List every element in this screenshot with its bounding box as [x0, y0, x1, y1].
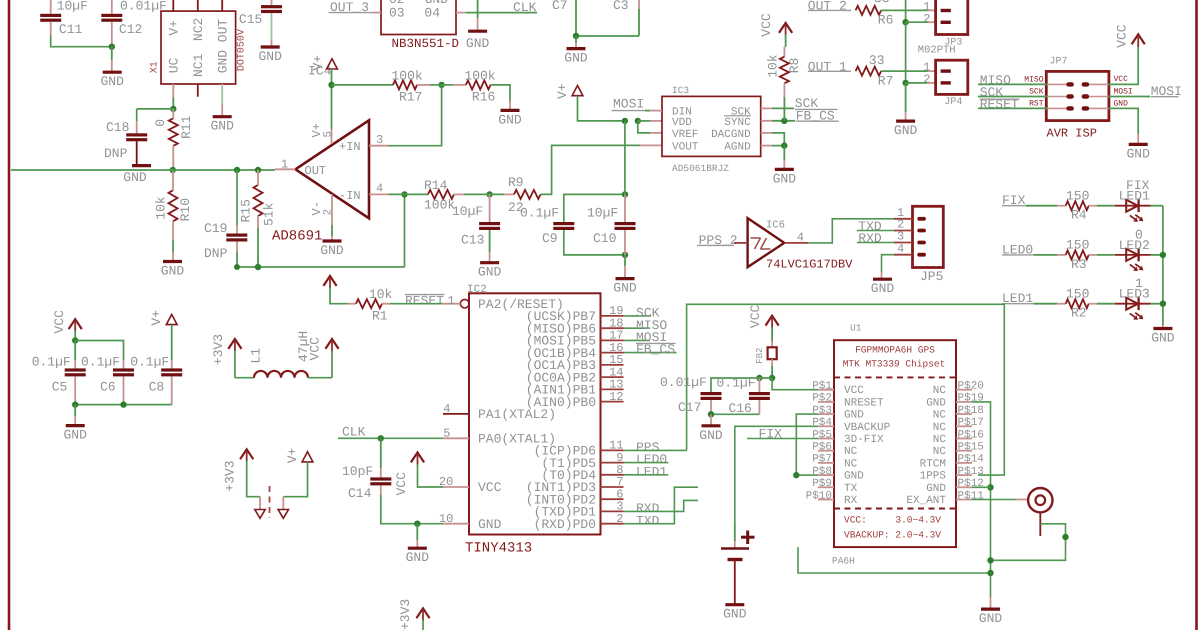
underline OUT_2 — [808, 9, 851, 11]
junction R15 top — [255, 167, 261, 173]
svg-text:4: 4 — [443, 402, 450, 416]
wire R4 to LED1 — [1089, 205, 1097, 207]
wire C5 top — [74, 341, 76, 361]
wire C19 bottom — [236, 242, 238, 253]
svg-text:100k: 100k — [424, 198, 455, 213]
inductor L1 — [254, 371, 308, 378]
capacitor C14 — [370, 477, 391, 480]
underline SCK at IC3 — [795, 108, 838, 110]
ground under battery — [725, 603, 744, 606]
JP7 pad right row2 — [1082, 94, 1090, 98]
junction C19 top — [234, 167, 240, 173]
ground under LEDs — [1153, 327, 1172, 330]
svg-text:2: 2 — [323, 209, 335, 216]
wire C16 bottom — [758, 400, 760, 414]
connector JP7 body — [1046, 71, 1109, 120]
svg-text:10µF: 10µF — [452, 204, 483, 219]
svg-text:0.01µF: 0.01µF — [660, 375, 707, 390]
junction C7 gnd — [573, 33, 579, 39]
svg-text:P$14: P$14 — [958, 454, 985, 466]
svg-text:U1: U1 — [850, 323, 862, 334]
junction C11/C12 — [109, 44, 115, 50]
svg-text:TINY4313: TINY4313 — [465, 541, 532, 557]
svg-text:4: 4 — [897, 242, 904, 256]
svg-text:GND: GND — [926, 397, 946, 409]
IC2 pin 2 stub — [601, 523, 624, 525]
U1 pin P$14 stub — [956, 462, 972, 464]
JP7 pad right row1 — [1082, 82, 1090, 86]
svg-text:C10: C10 — [593, 231, 616, 246]
ground under NB3N551 — [468, 30, 487, 33]
wire FB2 to P$1 — [772, 378, 818, 390]
capacitor C10 — [624, 194, 626, 222]
svg-text:MOSI: MOSI — [1114, 87, 1133, 96]
wire VCC to pin20 — [418, 464, 444, 487]
op-amp pin 1 OUT — [275, 168, 295, 170]
wire P$3 to P$8 — [796, 414, 818, 475]
svg-text:MTK MT3339 Chipset: MTK MT3339 Chipset — [843, 359, 946, 370]
wire VREF branch — [638, 121, 650, 133]
X1 pin NC2 top — [197, 0, 199, 11]
U1 pin P$18 stub — [956, 413, 972, 415]
svg-text:LED1: LED1 — [1119, 189, 1150, 204]
svg-text:R11: R11 — [179, 115, 194, 139]
U1 pin P$7 stub — [818, 462, 834, 464]
JP5 pin 1 stub — [894, 218, 913, 220]
IC2 pin 15 stub — [601, 364, 624, 366]
svg-text:0: 0 — [153, 119, 168, 127]
svg-text:0.1µF: 0.1µF — [520, 206, 559, 221]
svg-text:SCK: SCK — [1029, 87, 1044, 96]
svg-text:R14: R14 — [424, 178, 448, 193]
wire junction to gnd — [575, 36, 577, 43]
svg-text:LED2: LED2 — [1119, 238, 1150, 253]
wire FB_CS label — [624, 352, 677, 354]
svg-text:(RXD)PD0: (RXD)PD0 — [534, 517, 596, 532]
JP5 pin 4 stub — [894, 254, 913, 256]
svg-text:4: 4 — [376, 182, 383, 196]
svg-text:LED3: LED3 — [1119, 287, 1150, 302]
wire junction to C18 — [137, 108, 174, 110]
svg-text:C3: C3 — [613, 0, 629, 13]
svg-text:GND: GND — [844, 410, 864, 422]
svg-text:1PPS: 1PPS — [920, 471, 947, 483]
wire MISO label — [624, 327, 651, 329]
svg-text:P$9: P$9 — [812, 478, 832, 490]
svg-text:10k: 10k — [766, 54, 781, 78]
wire feedback riser — [404, 194, 406, 267]
ground under C18 — [132, 164, 151, 167]
IC2 body — [469, 293, 601, 534]
resistor R7 — [856, 67, 882, 76]
svg-text:0.1µF: 0.1µF — [32, 354, 71, 369]
U1 pin P$17 stub — [956, 425, 972, 427]
LED LED2 — [1115, 254, 1151, 256]
wire feedback bottom rail — [237, 266, 405, 268]
IC3 pin DIN stub — [650, 110, 662, 112]
resistor R1 — [356, 299, 382, 308]
wire C13 to gnd — [489, 230, 491, 252]
wire SYNC out — [772, 120, 795, 122]
svg-text:P$13: P$13 — [958, 466, 984, 478]
IC2 pin 11 stub — [601, 449, 624, 451]
connector JP4 body — [936, 60, 968, 94]
wire gnd rail to gnd — [905, 83, 907, 112]
svg-text:5: 5 — [443, 427, 450, 441]
svg-text:M02PTH: M02PTH — [918, 44, 956, 56]
resistor R14 — [428, 190, 454, 199]
junction C16 top — [756, 375, 762, 381]
wire junction to C17 — [711, 378, 772, 392]
svg-text:GND: GND — [844, 471, 864, 483]
wire R1 out — [382, 303, 390, 305]
svg-text:VREF: VREF — [672, 129, 698, 141]
svg-text:R17: R17 — [399, 90, 422, 105]
resistor R6 — [856, 6, 882, 15]
wire R7 to JP4 pin1 — [881, 70, 928, 72]
IC2 pin 9 stub — [601, 462, 624, 464]
junction R11/R10/net — [170, 167, 176, 173]
junction C17 gnd — [708, 411, 714, 417]
wire C14 bottom — [380, 485, 382, 495]
wire C5 bottom — [74, 376, 76, 404]
supply +3V3 jumper — [240, 449, 253, 459]
svg-text:NC: NC — [933, 385, 947, 397]
wire C18 to gnd — [136, 141, 138, 165]
wire C6 bottom — [123, 376, 125, 404]
svg-text:PA1(XTAL2): PA1(XTAL2) — [478, 407, 556, 422]
wire VCC to R8 — [785, 35, 787, 48]
IC3 pin AGND — [761, 145, 772, 147]
wire P$11 to antenna — [972, 499, 1017, 501]
resistor R4 — [1066, 201, 1089, 210]
svg-text:SYNC: SYNC — [724, 117, 751, 129]
wire R3 to LED2 — [1089, 254, 1097, 256]
ground under C13 — [480, 261, 499, 264]
X1 pin GND bottom — [221, 84, 223, 104]
resistor R16 — [466, 80, 491, 89]
junction LED2 rail — [1160, 252, 1166, 258]
svg-text:C19: C19 — [204, 221, 227, 236]
supply VCC FB2 — [766, 316, 779, 326]
svg-text:UC: UC — [167, 57, 182, 73]
wire VCC rail to C6 — [75, 341, 123, 361]
svg-text:GND: GND — [894, 123, 918, 138]
junction gnd rail 573 — [987, 570, 993, 576]
svg-text:P$1: P$1 — [812, 381, 832, 393]
junction C6 bottom — [120, 401, 126, 407]
svg-text:GND: GND — [723, 607, 747, 622]
svg-text:NC: NC — [933, 434, 947, 446]
U1 pin P$20 stub — [956, 389, 972, 391]
svg-text:GND: GND — [161, 264, 185, 279]
overline RESET at JP7 — [980, 98, 1020, 100]
IC2 pin 4 stub — [443, 413, 469, 415]
underline LED0 — [1002, 254, 1034, 256]
resistor R9 — [514, 190, 541, 199]
junction C5 bottom — [72, 401, 78, 407]
X1 pin NC1 bottom stub — [197, 84, 199, 97]
wire LED gnd rail — [1162, 206, 1164, 325]
IC2 pin 16 stub — [601, 352, 624, 354]
wire to gnd under IC2 — [416, 524, 418, 540]
junction FB2 out — [769, 375, 775, 381]
svg-text:MISO: MISO — [1024, 75, 1043, 84]
svg-text:P$3: P$3 — [812, 405, 832, 417]
jumper SJ1 right pin — [282, 497, 284, 510]
supply VCC L1 — [325, 339, 338, 349]
wire C9 branch — [564, 194, 625, 222]
JP3 pad2 — [941, 21, 951, 24]
JP7 inner pin right row3 — [1089, 107, 1109, 109]
jumper SJ1 left pin — [259, 497, 261, 510]
svg-text:TX: TX — [844, 483, 858, 495]
ground under JP7 — [1129, 143, 1148, 146]
junction P$12 gnd — [987, 484, 993, 490]
wire PPS_2 to IC6 — [734, 242, 748, 244]
wire R6 to JP3 pin1 — [881, 9, 928, 11]
ground under op-amp — [323, 239, 342, 242]
svg-text:VCC: VCC — [52, 310, 67, 334]
svg-text:C14: C14 — [348, 486, 372, 501]
capacitor C6 — [123, 360, 125, 368]
ferrite bead FB2 — [768, 347, 777, 359]
svg-text:P$11: P$11 — [958, 490, 985, 502]
wire gnd rail bottom — [990, 597, 992, 609]
svg-text:+3V3: +3V3 — [398, 599, 413, 630]
capacitor C9 — [553, 222, 574, 225]
svg-text:GND: GND — [258, 49, 282, 64]
svg-text:GND: GND — [926, 483, 946, 495]
svg-text:GND: GND — [498, 112, 522, 127]
wire PPS from pin11 — [624, 449, 687, 451]
svg-text:33: 33 — [874, 0, 890, 6]
svg-text:P$8: P$8 — [812, 466, 832, 478]
wire VDD rail down — [624, 121, 626, 194]
wire CLK to pin5 — [338, 437, 443, 439]
svg-text:10µF: 10µF — [587, 206, 618, 221]
svg-text:GND: GND — [210, 119, 234, 134]
svg-text:PA6H: PA6H — [832, 556, 855, 567]
svg-text:VCC: VCC — [308, 337, 323, 361]
svg-text:P$20: P$20 — [958, 381, 984, 393]
JP7 inner pin left row2 — [1046, 96, 1066, 98]
ground under R10 — [163, 260, 182, 263]
IC6 hysteresis symbol — [751, 237, 761, 239]
U1 pin P$10 stub — [818, 499, 834, 501]
wire rail to gnd — [1162, 325, 1164, 329]
wire GND from JP7 — [1108, 108, 1138, 134]
svg-text:GND: GND — [478, 265, 502, 280]
junction VCC/C5 — [72, 337, 78, 343]
wire RXD from pin3 — [624, 500, 699, 511]
wire junction to gnd — [111, 47, 113, 60]
wire P$12 to rail — [972, 486, 991, 488]
junction AGND/DACGND — [781, 142, 787, 148]
wire LED1 from pin8 — [624, 474, 669, 476]
wire VCC from JP7 — [1108, 46, 1138, 84]
U1 pin P$15 stub — [956, 450, 972, 452]
svg-text:P$17: P$17 — [958, 417, 984, 429]
wire PPS rail — [687, 304, 1005, 475]
svg-text:RST: RST — [1029, 99, 1044, 108]
U1 pin P$13 stub — [956, 474, 972, 476]
svg-text:10k: 10k — [369, 287, 393, 302]
wire R16 to gnd — [491, 85, 511, 101]
wire FB2 to junction — [771, 359, 773, 366]
U1 pin P$6 stub — [818, 450, 834, 452]
svg-text:P$16: P$16 — [958, 429, 984, 441]
capacitor C18 — [136, 121, 138, 133]
svg-text:P$2: P$2 — [812, 393, 832, 405]
U1 pin P$1 stub — [818, 389, 834, 391]
svg-text:2: 2 — [923, 72, 930, 86]
U1 pin P$19 stub — [956, 401, 972, 403]
U1 pin P$16 stub — [956, 438, 972, 440]
JP7 inner pin left row1 — [1046, 83, 1066, 85]
battery BT1 — [734, 524, 736, 541]
wire to IC3 gnd — [783, 146, 785, 160]
svg-text:VDD: VDD — [672, 117, 692, 129]
junction gnd rail 560 — [987, 557, 993, 563]
svg-text:IC2: IC2 — [467, 284, 487, 296]
wire VCC to FB2 — [771, 327, 773, 341]
resistor R10 — [169, 190, 178, 221]
svg-text:RX: RX — [844, 495, 858, 507]
underline OUT_3 — [329, 12, 372, 14]
svg-text:P$5: P$5 — [812, 429, 832, 441]
svg-text:NC: NC — [933, 410, 947, 422]
junction X1-UC/R11/C18 — [170, 106, 176, 112]
svg-text:150: 150 — [1066, 287, 1089, 302]
svg-text:JP5: JP5 — [920, 269, 943, 284]
overline FB_CS — [636, 342, 676, 344]
JP5 pad 4 — [917, 253, 926, 257]
U1 pin P$12 stub — [956, 486, 972, 488]
U1 pin P$3 stub — [818, 413, 834, 415]
svg-text:C12: C12 — [119, 22, 142, 37]
wire V+ jumper down — [283, 462, 307, 497]
JP5 pad 3 — [917, 241, 926, 245]
wire C10 to gnd — [624, 230, 626, 255]
svg-text:VCC: VCC — [748, 304, 763, 328]
junction feedback C19 — [234, 264, 240, 270]
svg-text:2.0~4.3V: 2.0~4.3V — [895, 530, 941, 541]
svg-text:NC: NC — [844, 458, 858, 470]
ground under C15 — [261, 45, 280, 48]
capacitor C3 wire — [638, 0, 640, 9]
svg-text:R4: R4 — [1071, 208, 1087, 223]
svg-text:P$4: P$4 — [812, 417, 832, 429]
JP5 pin 2 stub — [894, 230, 913, 232]
svg-text:DOT050V: DOT050V — [237, 29, 248, 71]
resistor R11 — [169, 118, 178, 146]
supply V+ C8 — [166, 314, 177, 324]
svg-text:1: 1 — [448, 294, 455, 308]
svg-text:R8: R8 — [787, 58, 802, 74]
X1 pin V+ top — [172, 0, 174, 11]
ground under C5 — [66, 424, 85, 427]
junction R14/C13 — [486, 191, 492, 197]
U1 pin P$2 stub — [818, 401, 834, 403]
GPS module U1 body — [834, 340, 956, 547]
wire JP4 pin2 — [906, 82, 928, 84]
svg-text:GND: GND — [100, 74, 124, 89]
connector JP5 body — [913, 206, 944, 267]
wire LED1 to rail — [1151, 205, 1163, 207]
svg-text:GND: GND — [699, 428, 723, 443]
wire MOSI to DIN — [645, 110, 650, 112]
capacitor C16 — [758, 378, 760, 392]
wire LED3 to rail — [1151, 303, 1163, 305]
wire DACGND down — [772, 133, 784, 146]
svg-text:OUT_2: OUT_2 — [808, 0, 847, 13]
wire C19 top — [236, 170, 238, 225]
svg-text:10pF: 10pF — [342, 464, 373, 479]
svg-text:CLK: CLK — [513, 0, 537, 15]
ground under C7 — [567, 47, 586, 50]
LED LED1 — [1115, 205, 1151, 207]
capacitor C8 — [161, 368, 182, 371]
wire LED1 to R2 — [1034, 303, 1057, 305]
junction feedback R15 — [255, 264, 261, 270]
X1 pin UC bottom — [172, 84, 174, 97]
svg-text:AD5061BRJZ: AD5061BRJZ — [672, 163, 729, 174]
svg-text:C9: C9 — [542, 231, 558, 246]
svg-text:C15: C15 — [239, 12, 262, 27]
underline FB_CS at IC3 — [796, 120, 839, 122]
X1 pin OUT top — [221, 0, 223, 11]
junction CLK/C14 — [378, 435, 384, 441]
wire C12 to junction — [111, 22, 113, 47]
supply +3V3 bottom — [416, 608, 429, 618]
junction -IN node — [401, 191, 407, 197]
IC2 pin 17 stub — [601, 339, 624, 341]
junction C10 top — [622, 191, 628, 197]
wire R9 to VOUT — [541, 145, 641, 194]
wire +3V3 down — [234, 351, 236, 378]
svg-text:3.0~4.3V: 3.0~4.3V — [895, 515, 941, 526]
wire +3V3 bottom stem — [422, 620, 424, 630]
svg-text:AVR ISP: AVR ISP — [1047, 126, 1097, 140]
supply VCC JP7 — [1132, 34, 1145, 44]
svg-text:V+: V+ — [167, 20, 182, 36]
svg-text:V+: V+ — [149, 310, 164, 326]
svg-text:C11: C11 — [59, 22, 83, 37]
wire shield to gnd rail — [991, 524, 1066, 561]
IC2 pin 10 stub — [443, 523, 469, 525]
junction VREF branch — [635, 118, 641, 124]
svg-text:JP7: JP7 — [1050, 57, 1068, 68]
junction JP4 pin2 — [902, 80, 908, 86]
svg-text:OUT_1: OUT_1 — [808, 59, 847, 74]
wire gnd rail mid — [905, 22, 907, 83]
wire P$19 gnd rail — [972, 402, 991, 597]
svg-text:DNP: DNP — [204, 246, 228, 261]
svg-text:GND: GND — [613, 281, 637, 296]
JP7 pad left row2 — [1066, 94, 1074, 98]
wire MOSI label — [624, 339, 651, 341]
wire R1 to RESET — [390, 303, 442, 305]
svg-text:VCC: VCC — [1115, 24, 1130, 48]
op-amp IC4 triangle — [295, 120, 369, 218]
ground under R16 — [501, 109, 520, 112]
wire C17 to gnd — [710, 414, 712, 426]
wire SCK out — [772, 107, 794, 109]
svg-text:P$12: P$12 — [958, 478, 984, 490]
op-amp pin 3 +IN — [369, 145, 389, 147]
supply V+ jumper — [302, 452, 313, 462]
